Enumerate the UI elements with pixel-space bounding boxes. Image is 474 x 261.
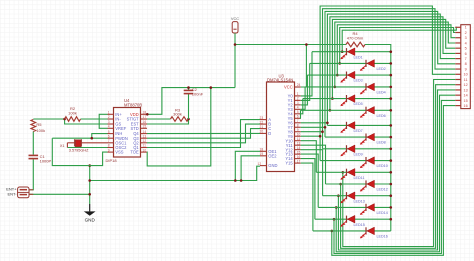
wire Y15 to LED16 row bbox=[301, 163, 313, 231]
svg-text:13: 13 bbox=[297, 141, 301, 145]
label ENT- bbox=[7, 191, 17, 196]
junction LED11 drop bbox=[342, 171, 345, 174]
junction LED14 drop bbox=[335, 206, 338, 209]
wire R5 to C1 bbox=[32, 132, 34, 155]
svg-text:GND: GND bbox=[85, 218, 96, 223]
junction LED15 drop bbox=[333, 218, 336, 221]
label LED10 bbox=[377, 164, 388, 168]
svg-text:12: 12 bbox=[143, 139, 147, 143]
LED 1 (LED1) bbox=[340, 48, 355, 59]
capacitor C2 bbox=[184, 90, 194, 93]
svg-text:Y15: Y15 bbox=[285, 161, 293, 166]
junction LED16 drop bbox=[331, 230, 334, 233]
wire Y1 to LED2 row bbox=[301, 63, 310, 100]
label R2 bbox=[68, 106, 77, 115]
wire Y9 to riser bbox=[301, 135, 320, 137]
svg-text:MT8870B: MT8870B bbox=[124, 102, 142, 107]
label LED1 bbox=[354, 55, 363, 59]
svg-text:9: 9 bbox=[297, 128, 299, 132]
junction LED13 drop bbox=[337, 194, 340, 197]
label LED5 bbox=[354, 102, 363, 106]
svg-text:22: 22 bbox=[260, 120, 264, 124]
svg-text:D: D bbox=[268, 131, 271, 136]
wire Y14 to LED15 row bbox=[301, 159, 315, 220]
label LED4 bbox=[377, 91, 386, 95]
wire C2 top bbox=[188, 88, 190, 91]
svg-text:5: 5 bbox=[465, 47, 467, 51]
LED 2 (LED2) bbox=[360, 60, 375, 71]
junction rail bbox=[88, 179, 91, 182]
label ENT+ bbox=[6, 187, 17, 192]
svg-text:2: 2 bbox=[108, 115, 110, 119]
wire Y13 to LED14 row bbox=[301, 154, 318, 207]
wire LED anode rail bbox=[390, 52, 392, 231]
junction Y8 stub/riser bbox=[321, 130, 324, 133]
wire riser Y1 to connector pin 2 bbox=[340, 28, 456, 64]
wire LED11 row to connector pin 11 bbox=[343, 80, 456, 247]
wire Y2 to LED3 row bbox=[301, 75, 308, 105]
svg-text:5: 5 bbox=[297, 110, 299, 114]
wire riser Y6 to connector pin 7 bbox=[327, 14, 455, 125]
wire ground drop bbox=[89, 166, 91, 204]
junction VDD pin bbox=[146, 113, 149, 116]
junction Y4 riser/LED5 bbox=[331, 97, 334, 100]
wire VDD to VCC net bbox=[147, 88, 235, 115]
svg-text:LED7: LED7 bbox=[354, 129, 363, 133]
junction rail LED7 bbox=[390, 124, 393, 127]
wire LED15 row bbox=[315, 218, 391, 220]
svg-text:1: 1 bbox=[297, 92, 299, 96]
svg-text:3.5795GHZ: 3.5795GHZ bbox=[69, 149, 89, 153]
wire LED13 row bbox=[323, 195, 391, 197]
svg-text:ENT-: ENT- bbox=[7, 191, 17, 196]
LED 7 (LED7) bbox=[340, 122, 355, 133]
svg-text:DM74LS154N: DM74LS154N bbox=[267, 77, 293, 82]
svg-text:VCC: VCC bbox=[284, 85, 293, 90]
svg-text:17: 17 bbox=[297, 159, 301, 163]
wire Y11 to LED12 row bbox=[301, 145, 326, 184]
svg-text:100k: 100k bbox=[68, 111, 77, 116]
wire riser Y8 to connector pin 9 bbox=[323, 9, 456, 149]
svg-text:100k: 100k bbox=[36, 128, 45, 133]
wire Q4 to U3 D bbox=[147, 132, 260, 134]
crystal X1 leads bbox=[67, 143, 107, 148]
junction rail LED8 bbox=[390, 136, 393, 139]
svg-text:STD: STD bbox=[131, 126, 139, 131]
svg-text:TOE: TOE bbox=[130, 150, 139, 155]
svg-text:18: 18 bbox=[143, 111, 147, 115]
wire VCC branch to U3 bbox=[301, 45, 307, 88]
svg-text:LED4: LED4 bbox=[377, 91, 386, 95]
label R5 bbox=[36, 122, 45, 133]
LED 11 (LED11) bbox=[340, 169, 355, 180]
svg-text:11: 11 bbox=[143, 144, 147, 148]
LED 10 (LED10) bbox=[360, 157, 375, 168]
wire Y4 to LED5 row bbox=[301, 99, 303, 114]
svg-text:4: 4 bbox=[108, 125, 110, 129]
svg-text:GND: GND bbox=[268, 163, 277, 168]
label LED11 bbox=[354, 176, 365, 180]
resistor R3 bbox=[171, 117, 189, 122]
junction rail LED11 bbox=[390, 171, 393, 174]
svg-text:4: 4 bbox=[465, 41, 467, 45]
junction Y9 stub/riser bbox=[319, 135, 322, 138]
junction rail LED4 bbox=[390, 86, 393, 89]
wire gnd box to VSS bbox=[90, 152, 108, 166]
connector J1 16-pin header bbox=[455, 25, 470, 109]
svg-text:15: 15 bbox=[464, 99, 468, 103]
svg-text:LED3: LED3 bbox=[354, 79, 363, 83]
svg-text:6: 6 bbox=[108, 134, 110, 138]
svg-text:8: 8 bbox=[465, 62, 467, 66]
label LED6 bbox=[377, 114, 386, 118]
label R4 bbox=[347, 31, 364, 40]
wire Y12 to LED13 row bbox=[301, 150, 323, 196]
wire ground rail to U3 GND bbox=[90, 166, 260, 180]
svg-text:9: 9 bbox=[108, 148, 110, 152]
svg-text:2: 2 bbox=[297, 97, 299, 101]
svg-text:14: 14 bbox=[464, 94, 468, 98]
wire LED8 row bbox=[325, 136, 391, 138]
svg-text:16: 16 bbox=[297, 155, 301, 159]
label LED15 bbox=[354, 223, 365, 227]
svg-text:LED12: LED12 bbox=[377, 188, 388, 192]
svg-text:13: 13 bbox=[143, 134, 147, 138]
wire LED7 row bbox=[327, 124, 390, 126]
label LED3 bbox=[354, 79, 363, 83]
junction TOE/VDD line bbox=[210, 86, 213, 89]
wire Y5 to LED6 row bbox=[300, 110, 302, 118]
svg-text:470 Ohm: 470 Ohm bbox=[347, 36, 364, 41]
svg-text:LED9: LED9 bbox=[354, 152, 363, 156]
svg-text:1000P: 1000P bbox=[40, 159, 52, 164]
svg-text:10: 10 bbox=[297, 132, 301, 136]
wire OE2 to gnd rail bbox=[241, 156, 260, 181]
svg-text:4: 4 bbox=[297, 106, 299, 110]
junction Y1 riser/LED2 bbox=[338, 62, 341, 65]
junction Y6 stub/riser bbox=[326, 122, 329, 125]
junction ENT- bbox=[88, 193, 91, 196]
svg-text:10: 10 bbox=[464, 73, 468, 77]
svg-text:2: 2 bbox=[465, 31, 467, 35]
LED 4 (LED4) bbox=[360, 83, 375, 94]
label LED12 bbox=[377, 188, 388, 192]
wire LED16 row bbox=[313, 230, 391, 232]
svg-text:LED13: LED13 bbox=[354, 199, 365, 203]
LED 12 (LED12) bbox=[360, 180, 375, 191]
svg-text:14: 14 bbox=[143, 130, 147, 134]
wire LED6 row bbox=[301, 109, 391, 111]
svg-text:LED6: LED6 bbox=[377, 114, 386, 118]
label LED7 bbox=[354, 129, 363, 133]
svg-text:1: 1 bbox=[465, 26, 467, 30]
wire Y10 to LED11 row bbox=[301, 141, 317, 173]
wire Y8 to riser bbox=[301, 131, 323, 133]
junction rail LED13 bbox=[390, 194, 393, 197]
wire LED16 row to connector pin 16 bbox=[332, 106, 456, 256]
label C1 bbox=[40, 154, 52, 164]
svg-text:LED16: LED16 bbox=[377, 235, 388, 239]
svg-text:VCC: VCC bbox=[231, 16, 239, 21]
resistor R4 bbox=[346, 42, 365, 47]
svg-text:15: 15 bbox=[297, 150, 301, 154]
junction VCC bbox=[234, 43, 237, 46]
svg-text:16: 16 bbox=[464, 104, 468, 108]
wire LED12 row to connector pin 12 bbox=[341, 85, 456, 249]
wire node to U4 GS bbox=[65, 119, 108, 124]
wire VCC line to R4 bbox=[235, 44, 346, 46]
wire Y7 to riser bbox=[301, 126, 325, 128]
LED 15 (LED15) bbox=[340, 215, 355, 226]
LED 14 (LED14) bbox=[360, 204, 375, 215]
svg-text:9: 9 bbox=[465, 68, 467, 72]
svg-text:VSS: VSS bbox=[115, 150, 123, 155]
svg-text:LED8: LED8 bbox=[377, 141, 386, 145]
svg-text:LED1: LED1 bbox=[354, 55, 363, 59]
wire LED1 row bbox=[312, 51, 391, 53]
label LED2 bbox=[377, 67, 386, 71]
label LED9 bbox=[354, 152, 363, 156]
wire LED15 row to connector pin 15 bbox=[334, 100, 455, 253]
wire R5-top to R2 (IN- net) bbox=[33, 118, 64, 120]
wire crystal to OSC2 bbox=[67, 147, 107, 149]
svg-text:LED10: LED10 bbox=[377, 164, 388, 168]
LED 6 (LED6) bbox=[360, 107, 375, 118]
wire LED12 row bbox=[326, 183, 391, 185]
decoder U3 DM74LS154N bbox=[258, 82, 301, 172]
resistor R2 bbox=[65, 117, 81, 122]
label LED16 bbox=[377, 235, 388, 239]
svg-text:13: 13 bbox=[464, 88, 468, 92]
junction U3 VCC branch bbox=[305, 43, 308, 46]
LED 3 (LED3) bbox=[340, 71, 355, 82]
supply VCC bbox=[231, 16, 239, 33]
svg-text:R5: R5 bbox=[36, 122, 42, 127]
svg-text:12: 12 bbox=[464, 83, 468, 87]
wire LED3 row bbox=[307, 74, 390, 76]
svg-text:11: 11 bbox=[464, 78, 468, 82]
svg-text:LED5: LED5 bbox=[354, 102, 363, 106]
svg-text:VREF: VREF bbox=[115, 126, 126, 131]
wire Q2 to U3 B bbox=[147, 124, 260, 143]
wire LED4 row bbox=[305, 86, 391, 88]
svg-text:17: 17 bbox=[143, 115, 147, 119]
wire LED14 row to connector pin 14 bbox=[336, 95, 455, 252]
junction R2/R5/GS bbox=[63, 118, 66, 121]
svg-text:5: 5 bbox=[108, 130, 110, 134]
LED 8 (LED8) bbox=[360, 133, 375, 144]
junction box bbox=[88, 164, 91, 167]
svg-text:6: 6 bbox=[297, 115, 299, 119]
wire riser Y0 to connector pin 1 bbox=[342, 27, 456, 51]
svg-text:100nF: 100nF bbox=[192, 92, 204, 97]
wire PWDN net (gnd box top) bbox=[52, 137, 107, 139]
wire ENT- to ground node bbox=[29, 193, 89, 195]
wire LED14 row bbox=[318, 206, 391, 208]
label DIP18 bbox=[106, 158, 118, 163]
svg-text:12: 12 bbox=[258, 162, 262, 166]
wire riser Y9 to connector pin 10 bbox=[320, 6, 455, 161]
svg-text:300k: 300k bbox=[173, 112, 182, 117]
wire INH jog bbox=[92, 134, 108, 139]
junction rail LED2 bbox=[390, 62, 393, 65]
wire IN+ to VREF bracket bbox=[99, 114, 107, 128]
svg-text:18: 18 bbox=[260, 148, 264, 152]
wire C2 bottom bbox=[188, 94, 190, 119]
junction Y2 riser/LED3 bbox=[336, 74, 339, 77]
wire LED11 row bbox=[316, 171, 391, 173]
junction Y3 riser/LED4 bbox=[334, 86, 337, 89]
wire riser Y7 to connector pin 8 bbox=[325, 11, 455, 137]
junction rail LED5 bbox=[390, 97, 393, 100]
svg-text:7: 7 bbox=[465, 57, 467, 61]
label X1 bbox=[60, 144, 89, 152]
resistor R5 bbox=[31, 120, 36, 132]
label R3 bbox=[173, 107, 182, 116]
svg-text:7: 7 bbox=[108, 139, 110, 143]
svg-text:24: 24 bbox=[297, 83, 301, 87]
svg-text:14: 14 bbox=[297, 146, 301, 150]
junction Y7 stub/riser bbox=[324, 126, 327, 129]
wire riser Y3 to connector pin 4 bbox=[335, 22, 456, 87]
junction Y5 riser/LED6 bbox=[329, 109, 332, 112]
wire Y3 to LED4 row bbox=[301, 87, 305, 109]
wire Y0 to LED1 row bbox=[301, 52, 312, 96]
connector ENT (2-pin) bbox=[18, 187, 34, 198]
ground GND bbox=[84, 204, 96, 223]
svg-text:3: 3 bbox=[465, 36, 467, 40]
wire LED9 row bbox=[323, 148, 391, 150]
LED 9 (LED9) bbox=[340, 145, 355, 156]
wire LED13 row to connector pin 13 bbox=[338, 90, 455, 250]
label U4 bbox=[124, 98, 142, 107]
svg-text:8: 8 bbox=[297, 124, 299, 128]
junction LED12 drop bbox=[339, 183, 342, 186]
junction rail LED1 bbox=[390, 50, 393, 53]
svg-text:LED11: LED11 bbox=[354, 176, 365, 180]
label C2 bbox=[192, 87, 204, 97]
svg-text:6: 6 bbox=[465, 52, 467, 56]
wire LED2 row bbox=[310, 62, 391, 64]
svg-text:LED2: LED2 bbox=[377, 67, 386, 71]
svg-text:20: 20 bbox=[260, 130, 264, 134]
junction INH/PWDN bbox=[91, 137, 94, 140]
svg-text:11: 11 bbox=[297, 137, 301, 141]
svg-text:23: 23 bbox=[260, 116, 264, 120]
label U3 bbox=[267, 74, 293, 83]
svg-text:8: 8 bbox=[108, 144, 110, 148]
wire VCC symbol down bbox=[234, 33, 236, 87]
label LED13 bbox=[354, 199, 365, 203]
junction R3/C2/EST bbox=[187, 118, 190, 121]
wire gnd box left+bottom bbox=[52, 138, 89, 165]
wire C1 to ENT+ bbox=[29, 159, 33, 189]
svg-text:10: 10 bbox=[143, 148, 147, 152]
wire riser Y5 to connector pin 6 bbox=[330, 17, 455, 111]
wire LED10 row bbox=[320, 160, 391, 162]
junction rail LED3 bbox=[390, 74, 393, 77]
junction rail LED12 bbox=[390, 183, 393, 186]
svg-text:19: 19 bbox=[260, 152, 264, 156]
junction rail LED15 bbox=[390, 218, 393, 221]
svg-text:X1: X1 bbox=[60, 144, 65, 148]
junction C2/VDD line bbox=[187, 86, 190, 89]
wire Y6 to riser bbox=[301, 122, 328, 124]
svg-text:15: 15 bbox=[143, 125, 147, 129]
wire OE1 to gnd rail bbox=[235, 151, 260, 180]
wire TOE to VDD net bbox=[147, 88, 211, 166]
svg-text:1: 1 bbox=[108, 111, 110, 115]
wire LED5 row bbox=[303, 98, 391, 100]
IC U4 MT8870B DTMF decoder bbox=[108, 108, 148, 158]
svg-text:DIP18: DIP18 bbox=[106, 158, 118, 163]
label LED8 bbox=[377, 141, 386, 145]
junction rail LED9 bbox=[390, 148, 393, 151]
wire R4 to LED rail bbox=[365, 45, 391, 52]
svg-text:LED15: LED15 bbox=[354, 223, 365, 227]
wire ST/GT to R3 bbox=[147, 118, 171, 120]
svg-text:21: 21 bbox=[260, 125, 264, 129]
wire R2 to U4 IN- bbox=[81, 118, 108, 120]
label LED14 bbox=[377, 211, 388, 215]
junction OE1 rail bbox=[234, 179, 237, 182]
wire EST to R3/C2 node bbox=[147, 119, 189, 124]
capacitor C1 bbox=[29, 155, 39, 158]
svg-text:LED14: LED14 bbox=[377, 211, 388, 215]
LED 16 (LED16) bbox=[360, 227, 375, 238]
junction rail LED10 bbox=[390, 159, 393, 162]
junction rail LED14 bbox=[390, 206, 393, 209]
wire riser Y4 to connector pin 5 bbox=[332, 19, 455, 98]
wire Q1 to U3 A bbox=[147, 120, 260, 148]
junction Y0 riser/LED1 bbox=[341, 50, 344, 53]
svg-text:OE2: OE2 bbox=[268, 153, 277, 158]
wire Q3 to U3 C bbox=[147, 129, 260, 139]
wire riser Y2 to connector pin 3 bbox=[337, 25, 455, 75]
crystal X1 bbox=[75, 139, 82, 147]
junction OE2 rail bbox=[240, 179, 243, 182]
LED 5 (LED5) bbox=[340, 95, 355, 106]
svg-text:3: 3 bbox=[297, 101, 299, 105]
svg-text:7: 7 bbox=[297, 119, 299, 123]
junction rail LED6 bbox=[390, 109, 393, 112]
LED 13 (LED13) bbox=[340, 192, 355, 203]
